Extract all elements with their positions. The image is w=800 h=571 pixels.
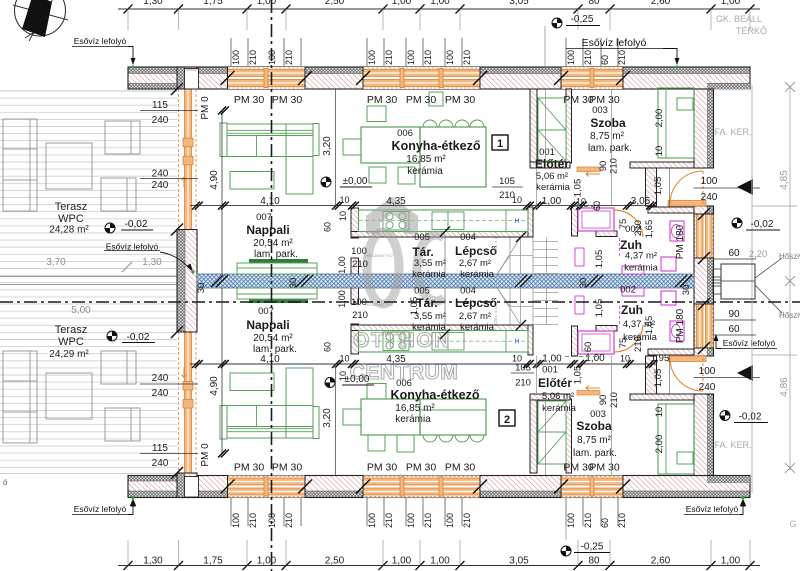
level +-0,00 (unit1) (321, 177, 331, 187)
svg-text:240: 240 (152, 180, 169, 191)
svg-text:10: 10 (339, 195, 349, 205)
svg-text:Előtér: Előtér (538, 376, 572, 390)
entry arrow triangle (unit1) (737, 179, 753, 195)
wall larder upper (unit1) (351, 208, 359, 238)
svg-text:240: 240 (701, 192, 718, 203)
svg-text:100: 100 (267, 513, 277, 528)
window edge ticks right wall (698, 208, 710, 220)
svg-text:FA. KER.: FA. KER. (714, 440, 751, 450)
svg-text:-0,02: -0,02 (125, 219, 148, 230)
Tar/Lepcso separator line (unit1) (444, 237, 446, 274)
svg-text:-0,02: -0,02 (739, 412, 762, 423)
svg-text:1,05: 1,05 (573, 366, 584, 385)
sink (unit1) (432, 212, 464, 230)
svg-text:10: 10 (654, 146, 665, 157)
svg-text:Szoba: Szoba (590, 116, 626, 130)
svg-text:Terasz: Terasz (55, 324, 87, 336)
svg-text:1,30: 1,30 (142, 257, 162, 268)
svg-text:1,05: 1,05 (653, 177, 664, 196)
svg-text:Konyha-étkező: Konyha-étkező (391, 388, 480, 402)
svg-text:100: 100 (267, 50, 277, 65)
bedroom wardrobe (unit1) (658, 88, 694, 158)
svg-text:1,00: 1,00 (337, 290, 347, 308)
svg-text:Hősziv: Hősziv (779, 311, 800, 320)
svg-text:210: 210 (609, 392, 620, 408)
wall kitchen/hall (unit2) (530, 399, 537, 473)
svg-text:Lépcső: Lépcső (455, 244, 497, 258)
terrace joint lines (0, 276, 177, 278)
svg-text:PM 30: PM 30 (445, 462, 476, 474)
wall bedroom south R (unit1) (630, 162, 694, 168)
svg-text:H: H (514, 339, 519, 346)
svg-text:WPC: WPC (58, 213, 84, 225)
bedroom door dim line (unit1) (611, 89, 613, 206)
hob (unit1) (383, 212, 409, 231)
svg-text:210: 210 (352, 259, 368, 270)
wall larder lower (unit2) (351, 288, 359, 304)
svg-text:4,35: 4,35 (386, 354, 406, 365)
svg-text:2,67 m²: 2,67 m² (459, 311, 491, 322)
terrace sliding door PM0 (unit1) (178, 89, 198, 230)
kitchen counter (unit2) (359, 331, 529, 353)
svg-text:kerámia: kerámia (460, 269, 495, 280)
svg-text:210: 210 (583, 513, 593, 528)
svg-text:3,55 m²: 3,55 m² (414, 258, 446, 269)
svg-text:kerámia: kerámia (460, 322, 495, 333)
dining table (unit2) (361, 399, 420, 435)
svg-text:005: 005 (414, 286, 430, 297)
svg-text:3,20: 3,20 (322, 408, 333, 428)
window group C top wall (561, 67, 623, 89)
window group C bottom wall (561, 476, 623, 498)
svg-text:H: H (514, 218, 519, 225)
svg-text:210: 210 (633, 336, 644, 352)
svg-text:115: 115 (152, 100, 168, 111)
interior dimension chain (unit2) (190, 363, 656, 365)
svg-text:005: 005 (414, 232, 430, 243)
wall hall/bedroom (unit1) (566, 89, 572, 163)
svg-text:60: 60 (600, 518, 610, 528)
svg-text:±0,00: ±0,00 (345, 374, 370, 385)
svg-text:210: 210 (248, 513, 258, 528)
watermark OC monogram (367, 232, 444, 304)
svg-text:2,00: 2,00 (654, 435, 665, 454)
bedroom sliding door (unit1) (577, 167, 600, 172)
svg-text:Tár.: Tár. (412, 245, 433, 259)
top dimension chain (118, 8, 760, 10)
green threshold dashes (unit2) (565, 356, 600, 358)
wall larder lower (unit1) (351, 258, 359, 274)
heat pump leader lines (755, 258, 782, 278)
TV board (unit2) (249, 300, 308, 304)
svg-text:100: 100 (566, 513, 576, 528)
svg-text:TÉRKŐ: TÉRKŐ (736, 26, 767, 36)
svg-text:210: 210 (248, 50, 258, 65)
svg-text:1,00: 1,00 (257, 556, 277, 567)
terrace sofa (unit1) (3, 119, 37, 211)
hall separator line B (unit1) (536, 168, 538, 206)
hall separator line B (unit2) (536, 356, 538, 394)
svg-text:±0,00: ±0,00 (343, 176, 368, 187)
svg-text:4,90: 4,90 (209, 376, 220, 396)
door pocket in top wall (185, 69, 199, 90)
svg-text:10: 10 (654, 407, 665, 418)
svg-text:1,05: 1,05 (573, 179, 584, 198)
svg-text:WPC: WPC (58, 336, 84, 348)
WC (unit2) (661, 291, 676, 305)
svg-text:PM 30: PM 30 (234, 462, 265, 474)
svg-text:210: 210 (583, 50, 593, 65)
svg-text:2,60: 2,60 (651, 0, 671, 7)
wall bedroom south L (unit2) (530, 394, 570, 400)
svg-text:4,10: 4,10 (260, 354, 280, 365)
svg-text:210: 210 (499, 190, 515, 201)
entry door leaf+swing (unit2) (702, 358, 704, 391)
washing machine (unit1) (575, 248, 584, 266)
svg-text:210: 210 (384, 513, 394, 528)
svg-text:1,05: 1,05 (653, 369, 664, 388)
fence line horizontals (752, 205, 797, 207)
svg-text:210: 210 (284, 50, 294, 65)
svg-text:240: 240 (152, 388, 169, 399)
svg-text:4,37 m²: 4,37 m² (625, 251, 657, 262)
green threshold dashes (unit1) (577, 206, 600, 208)
svg-text:Esővíz lefolyó: Esővíz lefolyó (686, 504, 739, 514)
window dim lines+labels above top wall (231, 38, 618, 66)
svg-text:100: 100 (367, 50, 377, 65)
svg-text:1,95: 1,95 (651, 353, 670, 364)
svg-text:2,60: 2,60 (651, 556, 671, 567)
terrace slab edges (0, 90, 177, 92)
svg-text:2,50: 2,50 (325, 556, 345, 567)
wall counter return (unit2) (528, 325, 533, 355)
svg-text:210: 210 (462, 513, 472, 528)
svg-text:240: 240 (699, 382, 716, 393)
dining table (unit1) (361, 127, 420, 163)
svg-text:PM 0: PM 0 (200, 443, 211, 467)
svg-text:1,00: 1,00 (392, 0, 412, 7)
sofa (unit2) (220, 406, 227, 440)
svg-text:1,05: 1,05 (594, 250, 605, 269)
exterior wall bottom (128, 491, 750, 498)
wall hall/bedroom (unit2) (566, 399, 572, 473)
svg-text:kerámia: kerámia (624, 263, 659, 274)
wall porch stub (unit2) (646, 356, 657, 394)
svg-text:210: 210 (515, 378, 531, 389)
wall counter return (unit1) (528, 207, 533, 237)
vertical dim 4,90 line (unit2) (221, 288, 223, 454)
level -0,02 right bottom (720, 411, 730, 421)
terrace chair B (unit2) (105, 408, 140, 441)
exterior wall right lower (708, 394, 714, 476)
svg-text:4,35: 4,35 (386, 196, 406, 207)
svg-text:HŐSZIVATTYÚ: HŐSZIVATTYÚ (365, 302, 393, 307)
svg-text:kerámia: kerámia (407, 166, 443, 177)
svg-text:1,05: 1,05 (409, 297, 420, 316)
WC (unit1) (661, 257, 676, 271)
sink (unit2) (432, 333, 464, 351)
svg-text:5,06 m²: 5,06 m² (536, 171, 568, 182)
svg-text:kerámia: kerámia (412, 269, 447, 280)
svg-text:240: 240 (152, 458, 169, 469)
vertical axis dash-dot (271, 0, 273, 571)
bedroom door dim line (unit2) (611, 356, 613, 475)
shower curved door (unit1) (614, 210, 643, 237)
svg-text:PM 30: PM 30 (272, 462, 303, 474)
wall shower west (unit2) (572, 326, 578, 356)
svg-text:100: 100 (566, 50, 576, 65)
svg-text:105: 105 (499, 176, 515, 187)
band slash second set (216, 275, 228, 287)
svg-text:kerámia: kerámia (542, 403, 577, 414)
svg-text:210: 210 (633, 220, 644, 236)
wall porch stub (unit1) (646, 168, 657, 206)
svg-text:2,00: 2,00 (654, 109, 665, 128)
site dimension line x790 with 4,85/4,86 (789, 86, 791, 470)
svg-text:75: 75 (618, 219, 629, 230)
svg-text:30: 30 (196, 283, 207, 294)
wall counter back (unit2) (351, 325, 533, 331)
svg-text:Lépcső: Lépcső (455, 296, 497, 310)
svg-text:80: 80 (588, 0, 600, 7)
svg-text:1,00: 1,00 (257, 0, 277, 7)
dining chairs semicircles (unit2) (423, 435, 437, 442)
svg-text:Szoba: Szoba (576, 419, 612, 433)
svg-text:10: 10 (339, 354, 349, 364)
level -0,02 right top (732, 218, 742, 228)
bedroom wardrobe (unit2) (658, 404, 694, 474)
svg-text:16,85 m²: 16,85 m² (395, 403, 435, 414)
top wall inner corner insulation strip (707, 83, 750, 89)
window edge ticks top wall (221, 71, 235, 85)
svg-text:60: 60 (728, 248, 740, 259)
svg-text:24,28 m²: 24,28 m² (49, 225, 89, 236)
svg-text:1,00: 1,00 (430, 556, 450, 567)
terrace coffee table (unit1) (46, 143, 92, 189)
svg-text:Esővíz lefolyó: Esővíz lefolyó (723, 338, 776, 348)
svg-text:3,05: 3,05 (509, 556, 529, 567)
svg-text:4,85: 4,85 (779, 170, 790, 190)
svg-text:4,10: 4,10 (260, 196, 280, 207)
terrace decking (WPC boards) (0, 91, 177, 467)
svg-text:60: 60 (323, 222, 333, 232)
svg-text:75: 75 (618, 338, 629, 349)
svg-text:Konyha-étkező: Konyha-étkező (392, 139, 481, 153)
entry threshold (unit1) (668, 201, 706, 207)
north compass (15, 0, 66, 36)
door edge ticks left wall (171, 83, 183, 95)
svg-text:4,90: 4,90 (209, 170, 220, 190)
living/kitchen separator line (unit2) (335, 364, 337, 476)
witness lines top (128, 9, 750, 30)
svg-text:60: 60 (323, 342, 333, 352)
svg-text:kerámia: kerámia (412, 322, 447, 333)
entry threshold (unit2) (668, 356, 706, 362)
svg-text:2,50: 2,50 (325, 0, 345, 7)
bottom wall inner corner insulation strip (707, 476, 750, 482)
wall shower west (unit1) (572, 206, 578, 236)
wall bedroom south R (unit2) (630, 394, 694, 400)
bedroom sliding door (unit2) (577, 391, 600, 396)
window group B top wall (363, 67, 480, 89)
plumbing dashed (unit1) (619, 238, 621, 256)
svg-text:1,00: 1,00 (337, 256, 347, 274)
svg-text:1,05: 1,05 (594, 299, 605, 318)
plumbing dashed (unit2) (619, 306, 621, 324)
svg-text:lam. park.: lam. park. (573, 448, 617, 459)
window edge ticks bottom wall (221, 480, 235, 494)
dining chairs squares (unit1) (367, 106, 386, 122)
vanity (unit2) (622, 288, 644, 296)
fence line vertical x752 (751, 85, 753, 493)
exterior wall left upper corner (177, 67, 185, 89)
svg-text:SZÉL. x 17: SZÉL. x 17 (493, 234, 498, 255)
svg-text:ó: ó (3, 478, 8, 487)
hall separator line A (unit2) (545, 399, 547, 475)
svg-text:-0,25: -0,25 (581, 542, 604, 553)
svg-text:Nappali: Nappali (246, 223, 289, 237)
svg-text:210: 210 (384, 50, 394, 65)
terrace sliding door PM0 (unit2) (178, 332, 198, 473)
svg-text:Esővíz lefolyó: Esővíz lefolyó (582, 37, 647, 49)
svg-text:PM 30: PM 30 (406, 94, 437, 106)
svg-text:3,05: 3,05 (631, 196, 651, 207)
svg-text:PM 30: PM 30 (445, 94, 476, 106)
svg-text:Előtér: Előtér (535, 157, 569, 171)
level +-0,00 (unit2) (325, 378, 335, 388)
svg-text:G: G (789, 519, 796, 529)
exterior wall left middle (177, 230, 185, 333)
svg-text:1,00: 1,00 (542, 196, 562, 207)
svg-text:210: 210 (609, 158, 620, 174)
svg-text:1,30: 1,30 (143, 556, 163, 567)
svg-text:20,54 m²: 20,54 m² (253, 333, 293, 344)
svg-text:-0,02: -0,02 (751, 219, 774, 230)
svg-text:lam. park.: lam. park. (588, 143, 632, 154)
svg-text:210: 210 (462, 50, 472, 65)
washing machine (unit2) (575, 296, 584, 314)
svg-text:210: 210 (423, 50, 433, 65)
svg-text:PM 30: PM 30 (367, 462, 398, 474)
window PM180 right wall upper (695, 214, 714, 258)
terrace coffee table (unit2) (46, 373, 92, 419)
party wall blue band (197, 274, 694, 288)
svg-text:24,29 m²: 24,29 m² (49, 349, 89, 360)
unit marker 1 (492, 135, 508, 150)
svg-text:1,00: 1,00 (721, 556, 741, 567)
svg-text:HŐSZIVATTYÚ: HŐSZIVATTYÚ (365, 253, 393, 258)
washbasin (unit1) (670, 221, 684, 241)
hall separator line A (unit1) (545, 89, 547, 163)
svg-text:PM 180: PM 180 (675, 308, 686, 343)
door pocket in bottom wall (185, 477, 199, 498)
TV board (unit1) (249, 259, 308, 263)
svg-text:kerámia: kerámia (536, 182, 571, 193)
svg-text:60: 60 (583, 342, 594, 353)
terrace chair A (unit2) (101, 351, 136, 384)
window group A top wall (228, 67, 306, 89)
svg-text:PM 30: PM 30 (367, 94, 398, 106)
svg-text:GK. BEÁLL: GK. BEÁLL (716, 14, 762, 24)
svg-text:60: 60 (600, 55, 610, 65)
living/kitchen separator line (unit1) (335, 89, 337, 206)
bottom dimension chain (118, 565, 760, 567)
svg-text:90: 90 (598, 161, 609, 172)
svg-text:Esővíz lefolyó: Esővíz lefolyó (74, 36, 127, 46)
exterior wall right upper (708, 89, 714, 168)
shower tray (unit1) (578, 208, 614, 231)
svg-text:16,85 m²: 16,85 m² (406, 154, 446, 165)
shower tray (unit2) (578, 331, 614, 354)
svg-text:210: 210 (617, 50, 627, 65)
window dim lines+labels below bottom wall (231, 498, 618, 526)
wall shower north (unit2) (648, 349, 694, 355)
svg-text:1,75: 1,75 (203, 556, 223, 567)
svg-text:007: 007 (258, 306, 274, 317)
svg-text:2,67 m²: 2,67 m² (459, 258, 491, 269)
exterior wall right middle (708, 206, 714, 356)
exterior wall top (128, 67, 750, 74)
tall cabinets (unit2) (538, 432, 566, 464)
vanity (unit1) (622, 266, 644, 274)
heat pump unit (721, 264, 755, 299)
window group A bottom wall (228, 476, 306, 498)
wall counter back (unit1) (351, 232, 533, 238)
svg-text:Terasz: Terasz (55, 201, 87, 213)
svg-text:FA. KER.: FA. KER. (714, 127, 751, 137)
svg-text:60: 60 (728, 324, 740, 335)
svg-text:100: 100 (701, 176, 718, 187)
svg-text:004: 004 (460, 286, 476, 297)
svg-text:1,30: 1,30 (143, 0, 163, 7)
staircase (unit2) (498, 289, 559, 325)
svg-text:100: 100 (699, 366, 716, 377)
svg-text:1,00: 1,00 (392, 556, 412, 567)
svg-text:kerámia: kerámia (395, 414, 431, 425)
svg-text:PM 30: PM 30 (234, 94, 265, 106)
kitchen counter (unit1) (359, 210, 529, 232)
svg-text:240: 240 (152, 169, 169, 180)
svg-text:90: 90 (728, 309, 740, 320)
wall shower north (unit1) (648, 207, 694, 213)
shower curved door (unit2) (614, 325, 643, 352)
svg-text:1,00: 1,00 (721, 0, 741, 7)
svg-text:3,70: 3,70 (46, 257, 66, 268)
svg-text:210: 210 (423, 513, 433, 528)
svg-text:1: 1 (497, 138, 503, 150)
dining chairs semicircles (unit1) (423, 120, 437, 127)
interior dimension chain (unit1) (190, 205, 656, 207)
svg-text:2,20: 2,20 (749, 249, 768, 260)
svg-text:-0,25: -0,25 (571, 14, 594, 25)
svg-text:1,75: 1,75 (203, 0, 223, 7)
exterior wall left lower corner (177, 473, 185, 498)
svg-text:PM 30: PM 30 (406, 462, 437, 474)
svg-text:30: 30 (288, 278, 299, 289)
entry arrow triangle (unit2) (737, 365, 753, 381)
svg-text:105: 105 (515, 363, 531, 374)
svg-text:1,00: 1,00 (585, 353, 605, 364)
svg-text:PM 30: PM 30 (589, 94, 620, 106)
svg-text:002: 002 (620, 285, 636, 296)
window PM180 right wall lower (695, 304, 714, 348)
svg-text:3,05: 3,05 (509, 0, 529, 7)
svg-text:100: 100 (367, 513, 377, 528)
svg-text:80: 80 (588, 556, 600, 567)
svg-text:10: 10 (338, 211, 348, 221)
svg-text:30: 30 (578, 278, 589, 289)
svg-text:1,00: 1,00 (542, 354, 562, 365)
